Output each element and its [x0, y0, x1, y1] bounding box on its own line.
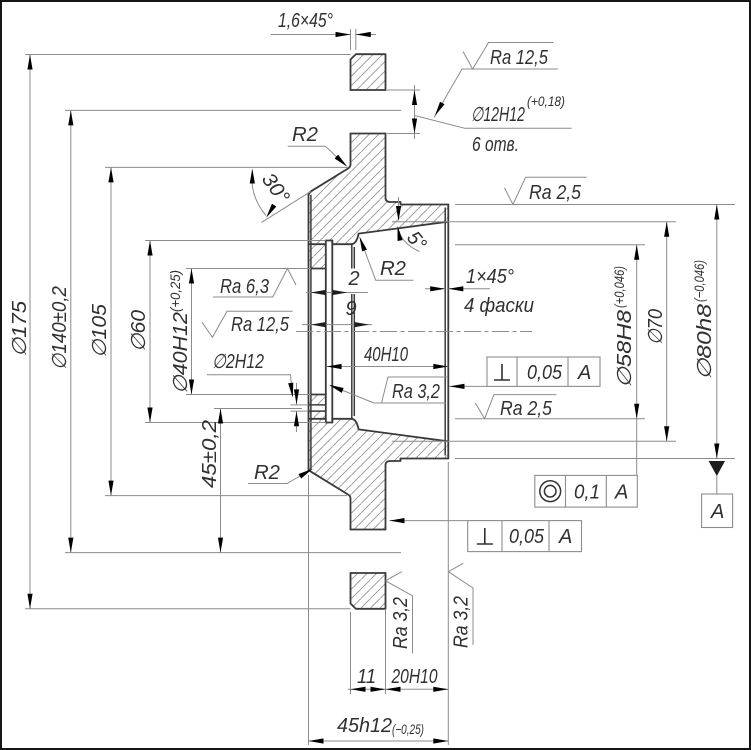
svg-text:0,05: 0,05	[509, 526, 545, 548]
svg-text:45h12: 45h12	[337, 715, 392, 737]
svg-text:6 отв.: 6 отв.	[472, 134, 519, 156]
phi2 groove hole edges	[309, 405, 326, 411]
bore phi40 lower line	[311, 394, 326, 396]
svg-text:0,1: 0,1	[574, 482, 600, 504]
dim phi140 +-0,2	[49, 110, 337, 552]
svg-text:∅12H12: ∅12H12	[471, 104, 525, 126]
dim 2 groove width	[306, 268, 368, 295]
svg-text:Ra 12,5: Ra 12,5	[231, 314, 290, 336]
flange left face upper + cone 30 + fillet	[309, 134, 351, 196]
svg-text:11: 11	[357, 666, 376, 688]
svg-text:0,05: 0,05	[527, 362, 563, 384]
svg-text:∅58H8: ∅58H8	[614, 310, 636, 388]
dim 5deg angle	[395, 197, 431, 255]
frame concentricity 0,1 A	[535, 475, 638, 507]
svg-text:Ra 12,5: Ra 12,5	[490, 47, 549, 69]
datum A flag	[702, 461, 733, 528]
flange right face upper + relief + phi80 top	[386, 134, 449, 205]
dim 20H10	[386, 666, 449, 692]
svg-text:∅175: ∅175	[9, 300, 31, 357]
svg-text:(+0,25): (+0,25)	[167, 270, 183, 312]
svg-text:1×45°: 1×45°	[466, 266, 514, 288]
dim 45+-0,2	[199, 409, 302, 553]
roughness Ra 12,5 left floating	[202, 311, 293, 337]
dim phi80h8 (-0,046)	[455, 205, 735, 459]
svg-text:(+0,18): (+0,18)	[527, 93, 565, 109]
flange left face lower + cone 30	[309, 468, 351, 530]
svg-text:R2: R2	[380, 258, 406, 280]
R2 label top	[288, 124, 349, 169]
dim phi105	[89, 167, 348, 495]
flange outline lower	[351, 573, 386, 609]
dim phi2H12 groove hole	[207, 351, 309, 432]
shoulder phi58 lower	[309, 419, 352, 423]
roughness Ra 3,2 rotated on right face ext	[448, 563, 473, 648]
frame perpendicularity 0,05 A (upper)	[450, 357, 601, 389]
dim 40H10 bore depth	[327, 344, 449, 369]
hatch flange lower	[351, 573, 386, 609]
bolt hole axis lower	[337, 552, 401, 554]
bolt hole axis upper	[337, 109, 401, 111]
svg-text:Ra 3,2: Ra 3,2	[390, 597, 412, 649]
svg-text:Ra 2,5: Ra 2,5	[529, 182, 582, 204]
svg-text:∅140±0,2: ∅140±0,2	[49, 286, 71, 370]
R2 label bottom	[248, 462, 314, 484]
svg-text:(−0,25): (−0,25)	[392, 721, 424, 737]
groove phi60 edges	[326, 241, 333, 423]
svg-text:9: 9	[346, 298, 357, 320]
svg-text:(−0,046): (−0,046)	[691, 260, 707, 302]
svg-text:A: A	[710, 501, 724, 523]
bolt hole lower edges	[351, 530, 386, 574]
dim phi40H12 (+0,25)	[167, 269, 311, 395]
taper 5deg lower with R2 fillet	[352, 419, 447, 441]
left end face double line	[308, 194, 310, 471]
svg-text:∅105: ∅105	[89, 303, 111, 358]
flange outline upper	[351, 54, 386, 90]
dim 1x45 chamfer + 4 faski	[425, 266, 534, 317]
dim phi175	[9, 55, 351, 609]
svg-text:Ra 6,3: Ra 6,3	[220, 276, 269, 298]
svg-text:1,6×45°: 1,6×45°	[278, 10, 333, 32]
dim phi12H12 bolt hole + Ra12,5 leader	[387, 85, 572, 156]
svg-text:A: A	[577, 362, 591, 384]
roughness Ra 3,2 rotated on flange face ext	[386, 572, 413, 654]
main axis centerline	[296, 331, 532, 333]
phi2 groove white cut	[308, 405, 326, 410]
phi80 bottom	[401, 458, 449, 460]
shoulder phi58 upper	[309, 241, 352, 245]
bore phi40 upper line	[311, 268, 326, 270]
svg-text:2: 2	[348, 268, 360, 290]
dim phi58H8 (+0,046)	[455, 245, 645, 476]
dim 30deg angle	[250, 169, 311, 223]
svg-text:∅40H12: ∅40H12	[170, 312, 192, 394]
taper 5deg upper with R2 fillet	[352, 222, 447, 244]
svg-text:∅80h8: ∅80h8	[694, 304, 716, 380]
svg-text:40H10: 40H10	[364, 344, 408, 366]
roughness Ra 2,5 on phi80 ext	[505, 177, 587, 204]
dim 11 flange thickness	[348, 666, 448, 692]
svg-text:Ra 3,2: Ra 3,2	[392, 381, 440, 403]
right end face double line	[447, 205, 449, 459]
svg-text:R2: R2	[254, 462, 280, 484]
svg-text:∅2H12: ∅2H12	[212, 351, 264, 373]
svg-text:(+0,046): (+0,046)	[611, 266, 627, 308]
svg-text:Ra 2,5: Ra 2,5	[500, 398, 553, 420]
R2 label middle	[357, 236, 414, 281]
svg-text:∅60: ∅60	[128, 310, 150, 352]
hatch flange upper	[351, 54, 386, 90]
svg-text:20H10: 20H10	[391, 666, 438, 688]
bore step edge lower	[352, 294, 355, 419]
frame perpendicularity 0,05 A (lower)	[390, 518, 582, 552]
dim 45h12 (-0,25) overall	[309, 715, 449, 744]
svg-text:A: A	[558, 526, 572, 548]
dim phi60	[128, 241, 326, 423]
svg-text:∅70: ∅70	[645, 309, 667, 345]
hatch hub upper	[309, 134, 449, 269]
roughness Ra 12,5 on hole leader	[433, 43, 558, 118]
roughness Ra 3,2 on bore 40H10	[328, 377, 447, 403]
dim 1,6x45 chamfer	[271, 10, 376, 50]
dim phi70	[392, 222, 676, 441]
svg-text:A: A	[614, 482, 628, 504]
bolt hole upper edges	[351, 90, 386, 134]
dim 9	[302, 298, 372, 327]
flange right face lower + relief	[386, 459, 401, 530]
bore step edge upper	[352, 244, 355, 268]
svg-text:4 фаски: 4 фаски	[464, 295, 534, 317]
bottom ext lines	[309, 462, 449, 745]
svg-text:45±0,2: 45±0,2	[199, 420, 221, 488]
svg-text:Ra 3,2: Ra 3,2	[451, 596, 473, 648]
hatch hub lower	[309, 395, 449, 530]
roughness Ra 6,3 under phi40 ext	[213, 269, 296, 299]
svg-text:R2: R2	[292, 124, 318, 146]
roughness Ra 2,5 on phi58 ext lower	[475, 395, 556, 420]
